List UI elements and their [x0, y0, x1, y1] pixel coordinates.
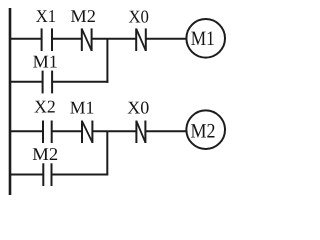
- svg-text:M2: M2: [191, 121, 216, 143]
- contact X0 rung1 (NC): [136, 28, 146, 51]
- svg-text:X2: X2: [34, 97, 56, 117]
- coil M1: [186, 19, 225, 58]
- wire X2 to M1: [52, 130, 82, 132]
- svg-text:X1: X1: [36, 6, 56, 26]
- node junction rung2: [106, 131, 108, 174]
- wire M2 to X0: [92, 38, 137, 40]
- svg-text:X0: X0: [127, 97, 149, 117]
- svg-text:M1: M1: [33, 51, 58, 71]
- wire rung2: rail to X2: [9, 130, 43, 132]
- wire branch1 to junction: [52, 81, 108, 83]
- wire X0 to coil M1: [146, 38, 187, 40]
- contact M2 (NO, seal-in branch): [43, 163, 51, 186]
- svg-text:M1: M1: [191, 28, 215, 50]
- contact M1 rung2 (NC): [82, 121, 92, 144]
- contact M1 (NO, seal-in branch): [43, 71, 53, 94]
- node junction rung1: [106, 39, 108, 83]
- svg-text:M2: M2: [32, 144, 58, 164]
- contact M2 (NC): [82, 28, 92, 51]
- wire branch2 to junction: [52, 174, 109, 176]
- contact X2 (NO): [43, 121, 52, 144]
- svg-text:M2: M2: [70, 6, 96, 26]
- wire X0 to coil M2: [145, 130, 187, 132]
- left power rail: [9, 8, 12, 195]
- wire rung1: rail to X1: [9, 38, 42, 40]
- svg-text:M1: M1: [70, 98, 95, 118]
- wire branch1: rail to M1 contact: [9, 81, 43, 83]
- coil M2: [186, 110, 225, 149]
- wire branch2: rail to M2 contact: [9, 174, 43, 176]
- svg-text:X0: X0: [128, 6, 149, 26]
- wire M1 to X0 rung2: [92, 130, 136, 132]
- contact X1 (NO): [42, 28, 52, 51]
- wire X1 to M2: [52, 38, 82, 40]
- contact X0 rung2 (NC): [136, 121, 145, 144]
